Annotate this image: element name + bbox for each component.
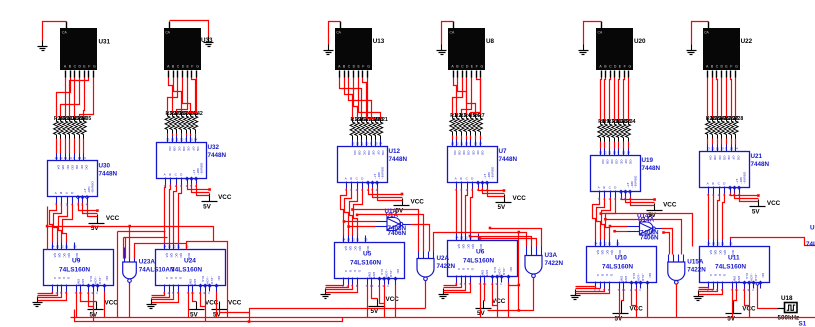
- svg-text:B: B: [58, 277, 62, 279]
- svg-text:15: 15: [616, 242, 620, 246]
- svg-text:10: 10: [720, 147, 724, 151]
- wires U24 bottom pins: [152, 292, 217, 322]
- ground under U9: [33, 297, 43, 307]
- svg-text:14: 14: [379, 142, 383, 146]
- svg-text:OC: OC: [610, 160, 614, 165]
- svg-text:OC: OC: [648, 273, 652, 278]
- svg-text:QB: QB: [170, 253, 174, 257]
- resistor network R22-R28: [706, 116, 744, 139]
- svg-text:12: 12: [464, 236, 468, 240]
- wires U7-U6 decoder outputs to VCC and counter: [457, 188, 506, 234]
- wire U22 CA to ground: [692, 22, 709, 45]
- svg-text:~CLR: ~CLR: [641, 273, 645, 282]
- svg-text:11: 11: [356, 238, 359, 242]
- svg-text:7448N: 7448N: [99, 171, 118, 178]
- svg-text:OG: OG: [736, 156, 740, 161]
- svg-text:74LS160N: 74LS160N: [463, 258, 494, 265]
- wire U15A output down to bus: [676, 284, 678, 318]
- svg-text:15: 15: [622, 151, 626, 155]
- wires U22 to R22-R28: [708, 78, 736, 118]
- svg-text:B: B: [169, 173, 171, 177]
- svg-text:~CLR: ~CLR: [98, 276, 102, 285]
- svg-text:~CLR: ~CLR: [502, 267, 506, 276]
- gate U14A 7408N/7406N (overlapping): [628, 213, 664, 242]
- svg-text:U19: U19: [642, 157, 654, 164]
- counter U11 74LS160N: [700, 240, 770, 293]
- svg-text:CA: CA: [598, 31, 603, 35]
- svg-text:14: 14: [455, 236, 459, 240]
- 7-seg display U13: [335, 22, 372, 78]
- svg-text:OE: OE: [75, 165, 79, 169]
- ground for U8: [437, 45, 447, 55]
- BCD-to-7seg decoder U21 7448N: [700, 145, 770, 198]
- VCC rail under U9: [88, 300, 119, 319]
- counter U5 74LS160N: [335, 236, 405, 289]
- svg-text:QB: QB: [601, 250, 605, 254]
- wires R22-R28 to U21: [708, 139, 736, 145]
- svg-text:R7: R7: [478, 113, 485, 119]
- BCD-to-7seg decoder U19 7448N: [591, 149, 661, 202]
- svg-text:CA: CA: [62, 31, 67, 35]
- svg-text:7422N: 7422N: [687, 267, 706, 274]
- svg-text:U21: U21: [751, 153, 763, 160]
- svg-text:VCC: VCC: [513, 195, 527, 202]
- svg-text:OF: OF: [376, 151, 380, 155]
- VCC rail near U32: [202, 194, 232, 211]
- svg-text:15: 15: [474, 142, 478, 146]
- svg-text:B: B: [60, 191, 62, 195]
- svg-text:OD: OD: [367, 151, 371, 156]
- svg-text:15: 15: [73, 245, 77, 249]
- gate U1A 7408N/7406N (overlapping): [376, 208, 411, 237]
- wire U12 area horizontals: [353, 210, 419, 252]
- svg-text:G: G: [196, 64, 199, 68]
- svg-text:B: B: [712, 182, 714, 186]
- svg-text:B: B: [460, 177, 462, 181]
- svg-text:15: 15: [730, 147, 734, 151]
- svg-text:7406N: 7406N: [388, 230, 407, 237]
- svg-text:ENT: ENT: [81, 279, 85, 285]
- svg-text:11: 11: [360, 142, 363, 146]
- BCD-to-7seg decoder U30 7448N: [48, 154, 118, 207]
- svg-text:CLK: CLK: [89, 276, 93, 283]
- 7-seg display U31: [60, 22, 97, 78]
- svg-text:74LS160N: 74LS160N: [171, 267, 202, 274]
- svg-text:11: 11: [608, 151, 611, 155]
- wires U5 bottom pins: [326, 285, 396, 318]
- wires U20 to R8-R14: [601, 78, 629, 121]
- wires U32-U24 decoder outputs to VCC and counter: [165, 184, 211, 243]
- svg-text:13: 13: [347, 238, 351, 242]
- svg-text:OC: OC: [462, 151, 466, 156]
- svg-text:U20: U20: [634, 38, 646, 45]
- svg-text:15: 15: [364, 238, 368, 242]
- VCC rail near U21: [750, 200, 781, 216]
- svg-text:13: 13: [712, 242, 716, 246]
- svg-text:U32: U32: [208, 144, 220, 151]
- svg-text:74LS: 74LS: [806, 241, 815, 248]
- svg-text:11: 11: [460, 142, 463, 146]
- svg-text:OD: OD: [182, 147, 186, 152]
- VCC rail near U12: [394, 199, 425, 215]
- svg-text:QC: QC: [62, 253, 66, 258]
- svg-text:VCC: VCC: [411, 199, 425, 206]
- counter U10 74LS160N: [587, 240, 657, 293]
- wires U11 bottom pins: [699, 288, 750, 318]
- svg-text:OF: OF: [80, 165, 84, 169]
- svg-text:OG: OG: [84, 165, 88, 170]
- svg-text:~CLR: ~CLR: [754, 273, 758, 282]
- wire maze U8 to R1-R7: [453, 78, 481, 115]
- svg-text:12: 12: [60, 245, 64, 249]
- svg-text:OC: OC: [66, 165, 70, 170]
- VCC rail near U14A and U19: [647, 202, 677, 220]
- wire right of U6 down to VCC rail: [518, 233, 520, 311]
- svg-text:CA: CA: [336, 31, 341, 35]
- wire U23A output to bus: [129, 284, 131, 318]
- wires R15-R21 to U12: [353, 139, 381, 141]
- svg-text:OD: OD: [615, 160, 619, 165]
- svg-text:OC: OC: [362, 151, 366, 156]
- svg-text:G: G: [629, 64, 632, 68]
- svg-text:5V: 5V: [752, 209, 761, 216]
- svg-text:12: 12: [59, 156, 63, 160]
- svg-text:QB: QB: [714, 250, 718, 254]
- wire U18 to U11 area: [758, 285, 778, 309]
- svg-text:74LS160N: 74LS160N: [350, 260, 381, 267]
- svg-text:OE: OE: [619, 160, 623, 164]
- 7-seg display U20: [596, 22, 633, 78]
- wire U1A output into U2A: [411, 225, 430, 252]
- svg-text:U16: U16: [810, 225, 815, 232]
- svg-text:14: 14: [82, 156, 86, 160]
- svg-text:U11: U11: [728, 255, 740, 262]
- svg-text:VCC: VCC: [105, 300, 119, 307]
- svg-text:ENP: ENP: [480, 270, 484, 276]
- svg-text:U6: U6: [476, 249, 485, 256]
- svg-text:74LS160N: 74LS160N: [602, 264, 633, 271]
- svg-text:QC: QC: [174, 253, 178, 258]
- svg-text:U12: U12: [389, 148, 401, 155]
- svg-text:CLK: CLK: [380, 269, 384, 276]
- svg-text:U18: U18: [781, 295, 793, 302]
- svg-text:U10: U10: [615, 255, 627, 262]
- svg-text:OB: OB: [358, 151, 362, 155]
- svg-text:12: 12: [171, 138, 175, 142]
- svg-text:13: 13: [56, 245, 60, 249]
- counter U9 74LS160N: [44, 243, 114, 296]
- svg-text:OG: OG: [381, 151, 385, 156]
- svg-text:13: 13: [451, 142, 455, 146]
- svg-text:14: 14: [707, 242, 711, 246]
- svg-text:R21: R21: [378, 117, 388, 123]
- wires R1-R7 to U7: [453, 136, 481, 140]
- VCC rail under U6: [476, 298, 506, 317]
- wire maze U13 to R15-R21: [340, 78, 381, 119]
- svg-text:~BI/RBO: ~BI/RBO: [634, 175, 638, 188]
- VCC rail under U24 (1): [189, 300, 219, 319]
- svg-text:13: 13: [168, 245, 172, 249]
- wires U6 bottom pins: [444, 283, 509, 318]
- svg-text:U3A: U3A: [545, 252, 558, 259]
- svg-text:10: 10: [365, 142, 369, 146]
- svg-text:U7: U7: [499, 148, 508, 155]
- svg-text:U30: U30: [99, 163, 111, 170]
- svg-text:B: B: [603, 186, 605, 190]
- svg-text:11: 11: [716, 147, 719, 151]
- svg-text:7406N: 7406N: [640, 235, 659, 242]
- wires R36-R42 to U32: [168, 134, 196, 136]
- clock source U18 500kHz: [778, 295, 800, 322]
- svg-text:U13: U13: [373, 38, 385, 45]
- bus wire 4: [220, 310, 250, 313]
- svg-text:15: 15: [729, 242, 733, 246]
- svg-text:OD: OD: [71, 165, 75, 170]
- svg-text:U8: U8: [486, 38, 495, 45]
- ground for U13: [324, 45, 334, 55]
- svg-text:14: 14: [342, 238, 346, 242]
- svg-text:~CLR: ~CLR: [210, 276, 214, 285]
- svg-text:G: G: [735, 64, 738, 68]
- bus wire 3 horizontal mid rail: [250, 309, 426, 322]
- svg-text:U23A: U23A: [139, 259, 156, 266]
- svg-text:F: F: [730, 64, 732, 68]
- svg-text:10: 10: [613, 151, 617, 155]
- svg-text:G: G: [367, 64, 370, 68]
- VCC rail under U24 (2): [212, 300, 242, 319]
- svg-text:QC: QC: [718, 250, 722, 255]
- svg-text:QD: QD: [179, 253, 183, 258]
- ground under U5: [321, 289, 331, 299]
- svg-text:B: B: [350, 177, 352, 181]
- svg-text:7422N: 7422N: [437, 263, 456, 270]
- svg-text:10: 10: [69, 156, 73, 160]
- svg-text:VCC: VCC: [767, 200, 781, 207]
- svg-text:ENP: ENP: [188, 279, 192, 285]
- svg-text:VCC: VCC: [218, 194, 232, 201]
- wire U2A fourth input across to U3A: [434, 233, 527, 252]
- svg-text:12: 12: [351, 238, 355, 242]
- svg-text:CA: CA: [450, 31, 455, 35]
- bus wire 2: [75, 310, 343, 322]
- VCC rail under U11: [726, 301, 757, 323]
- resistor network R36-R42: [165, 111, 203, 134]
- wire U3A output down to U6 VCC rail: [488, 278, 534, 311]
- BCD-to-7seg decoder U12 7448N: [338, 140, 408, 193]
- svg-text:QB: QB: [462, 244, 466, 248]
- VCC rail under U10: [613, 301, 644, 323]
- svg-text:14: 14: [194, 138, 198, 142]
- resistor network R15-R21: [350, 117, 388, 140]
- svg-text:QB: QB: [349, 246, 353, 250]
- wire U9 ENT horizontals: [47, 207, 49, 250]
- svg-text:U24: U24: [184, 258, 196, 265]
- BCD-to-7seg decoder U7 7448N: [448, 140, 518, 193]
- svg-text:G: G: [93, 64, 96, 68]
- svg-text:ENT: ENT: [737, 276, 741, 282]
- svg-text:ENT: ENT: [193, 279, 197, 285]
- svg-text:F: F: [88, 64, 90, 68]
- svg-text:11: 11: [175, 138, 178, 142]
- svg-text:QD: QD: [723, 250, 727, 255]
- svg-text:74LS160N: 74LS160N: [59, 267, 90, 274]
- svg-text:F: F: [191, 64, 193, 68]
- BCD-to-7seg decoder U32 7448N: [157, 136, 227, 189]
- svg-text:OB: OB: [457, 151, 461, 155]
- svg-text:U2A: U2A: [437, 255, 450, 262]
- svg-text:OC: OC: [396, 269, 400, 274]
- VCC rail near U30: [89, 215, 120, 232]
- svg-text:7448N: 7448N: [389, 156, 408, 163]
- svg-text:15: 15: [189, 138, 193, 142]
- wires R29-R35 to U30: [57, 139, 84, 154]
- svg-text:U5: U5: [363, 251, 372, 258]
- svg-text:CLK: CLK: [632, 273, 636, 280]
- wires U21-U11 decoder outputs to VCC and counter: [709, 193, 760, 240]
- svg-text:U9: U9: [72, 258, 81, 265]
- wire U31 CA to ground: [43, 22, 67, 41]
- svg-text:~BI/RBO: ~BI/RBO: [91, 181, 95, 194]
- svg-text:12: 12: [603, 242, 607, 246]
- svg-text:14: 14: [479, 142, 483, 146]
- svg-text:13: 13: [166, 138, 170, 142]
- wire U13 CA to ground: [329, 22, 341, 45]
- svg-text:OB: OB: [713, 156, 717, 160]
- svg-text:ENT: ENT: [372, 272, 376, 278]
- svg-text:13: 13: [351, 142, 355, 146]
- svg-text:B: B: [170, 277, 174, 279]
- wire U14A output to U15A: [662, 229, 673, 255]
- wires U9 bottom pins: [38, 292, 105, 322]
- svg-text:ENP: ENP: [619, 276, 623, 282]
- svg-text:OC: OC: [509, 267, 513, 272]
- svg-text:14: 14: [734, 147, 738, 151]
- svg-text:11: 11: [608, 242, 611, 246]
- 7-seg display U8: [448, 22, 485, 78]
- svg-text:B: B: [349, 270, 353, 272]
- svg-text:OG: OG: [629, 160, 633, 165]
- svg-text:OF: OF: [191, 147, 195, 151]
- svg-text:~BI/RBO: ~BI/RBO: [200, 162, 204, 175]
- svg-text:OC: OC: [718, 156, 722, 161]
- svg-text:ENT: ENT: [485, 270, 489, 276]
- svg-text:QD: QD: [358, 246, 362, 251]
- ground for U22: [687, 45, 697, 55]
- NAND gate U15A 7422N: [668, 255, 707, 288]
- svg-text:R34: R34: [626, 119, 636, 125]
- svg-text:CA: CA: [165, 31, 170, 35]
- svg-text:OC: OC: [105, 276, 109, 281]
- svg-text:7448N: 7448N: [642, 165, 661, 172]
- svg-text:12: 12: [172, 245, 176, 249]
- 7-seg display U33: [164, 22, 201, 78]
- VCC rail under U5: [369, 296, 400, 315]
- svg-text:QD: QD: [610, 250, 614, 255]
- counter U24 74LS160N: [156, 243, 226, 296]
- svg-text:OC: OC: [177, 147, 181, 152]
- svg-text:13: 13: [460, 236, 464, 240]
- svg-text:OE: OE: [372, 151, 376, 155]
- ground under U11: [694, 291, 704, 301]
- svg-text:OC: OC: [761, 273, 765, 278]
- svg-text:QB: QB: [58, 253, 62, 257]
- counter U6 74LS160N: [448, 234, 518, 287]
- svg-text:74LS160N: 74LS160N: [715, 264, 746, 271]
- svg-text:5V: 5V: [396, 208, 405, 215]
- svg-text:B: B: [714, 274, 718, 276]
- svg-text:B: B: [601, 274, 605, 276]
- svg-text:12: 12: [711, 147, 715, 151]
- svg-text:11: 11: [177, 245, 180, 249]
- svg-text:OD: OD: [467, 151, 471, 156]
- svg-text:QD: QD: [471, 244, 475, 249]
- svg-text:74ALS10AN: 74ALS10AN: [139, 267, 175, 274]
- svg-text:ENP: ENP: [732, 276, 736, 282]
- svg-text:F: F: [624, 64, 626, 68]
- svg-text:13: 13: [707, 147, 711, 151]
- svg-text:U22: U22: [741, 38, 753, 45]
- svg-text:OF: OF: [624, 160, 628, 164]
- svg-text:OF: OF: [476, 151, 480, 155]
- svg-text:12: 12: [716, 242, 720, 246]
- svg-text:OC: OC: [217, 276, 221, 281]
- svg-text:5V: 5V: [727, 316, 736, 323]
- ground under U24: [147, 299, 157, 309]
- svg-text:OE: OE: [727, 156, 731, 160]
- svg-text:G: G: [481, 64, 484, 68]
- wire U33 CA to ground: [170, 21, 209, 37]
- svg-text:14: 14: [627, 151, 631, 155]
- svg-text:~BI/RBO: ~BI/RBO: [381, 166, 385, 179]
- svg-text:12: 12: [603, 151, 607, 155]
- svg-text:CA: CA: [704, 31, 709, 35]
- svg-text:11: 11: [65, 245, 68, 249]
- svg-text:VCC: VCC: [106, 215, 120, 222]
- clock bus wire: [71, 317, 815, 319]
- resistor network R8-R14: [598, 119, 636, 142]
- wire U23A inputs: [125, 238, 127, 259]
- svg-text:5V: 5V: [498, 204, 507, 211]
- svg-text:5V: 5V: [615, 315, 624, 322]
- wire maze U33 to R36-R42: [168, 78, 197, 113]
- ground for U33: [204, 37, 214, 47]
- svg-text:OE: OE: [471, 151, 475, 155]
- svg-text:CLK: CLK: [745, 273, 749, 280]
- svg-text:10: 10: [465, 142, 469, 146]
- svg-text:~BI/RBO: ~BI/RBO: [743, 171, 747, 184]
- NAND gate U23A 74ALS10AN: [123, 248, 175, 286]
- svg-text:B: B: [462, 268, 466, 270]
- svg-text:OG: OG: [481, 151, 485, 156]
- svg-text:10: 10: [180, 138, 184, 142]
- svg-text:OG: OG: [196, 147, 200, 152]
- svg-text:14: 14: [51, 245, 55, 249]
- svg-text:CLK: CLK: [493, 267, 497, 274]
- svg-text:5V: 5V: [477, 310, 486, 317]
- svg-text:VCC: VCC: [663, 202, 677, 209]
- svg-text:OB: OB: [605, 160, 609, 164]
- svg-text:ENP: ENP: [76, 279, 80, 285]
- wires U12-U5 decoder outputs to VCC and counter: [341, 188, 404, 236]
- svg-text:13: 13: [599, 242, 603, 246]
- wires U19-U10 decoder outputs to VCC and counter: [593, 197, 656, 240]
- wire maze U31 to R29-R35: [57, 78, 94, 118]
- svg-text:7448N: 7448N: [208, 152, 227, 159]
- wire U20 CA to ground: [584, 22, 602, 45]
- svg-text:~BI/RBO: ~BI/RBO: [491, 166, 495, 179]
- svg-text:13: 13: [599, 151, 603, 155]
- wires U30-U9 decoder outputs to VCC and counter: [50, 203, 99, 243]
